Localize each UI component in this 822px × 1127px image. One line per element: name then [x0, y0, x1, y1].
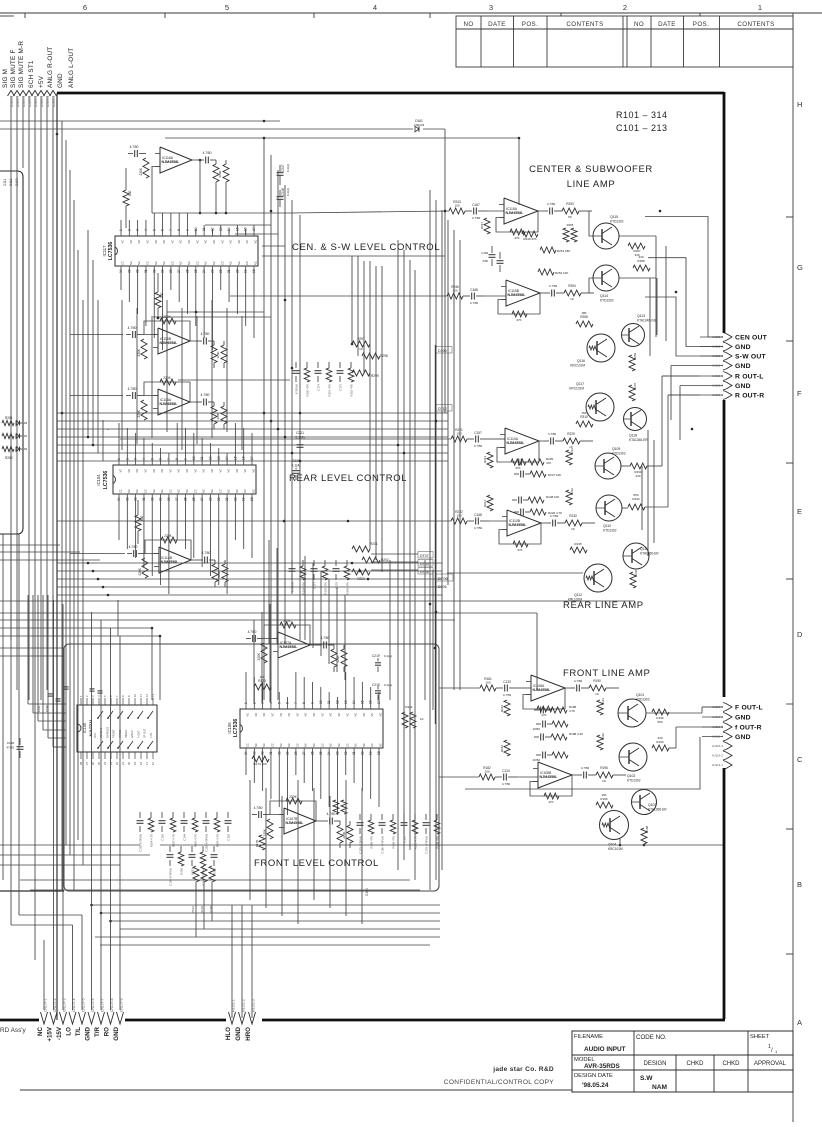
svg-text:100: 100 [456, 514, 461, 518]
capacitor 10/50 + resistor R187 [542, 721, 544, 728]
wire feedback loop IC110B [499, 523, 541, 544]
svg-text:NC: NC [287, 713, 291, 717]
capacitor input IC107B [258, 811, 260, 818]
capacitor output IC115A [549, 208, 551, 215]
svg-text:10: 10 [133, 693, 137, 697]
resistor R190 [589, 685, 606, 691]
op-amp IC116A [160, 147, 192, 173]
svg-text:S-W OUT: S-W OUT [735, 353, 766, 360]
resistor R178 220K vertical [259, 835, 265, 850]
svg-text:NC: NC [212, 240, 216, 244]
svg-text:F-IN: F-IN [150, 733, 153, 738]
svg-text:26: 26 [184, 497, 188, 501]
svg-text:47K: 47K [514, 236, 519, 240]
svg-text:R188 3.3K: R188 3.3K [569, 732, 583, 736]
op-amp IC107B [284, 808, 316, 834]
resistor R173 100 [254, 684, 271, 690]
svg-text:DT06: DT06 [438, 576, 449, 581]
svg-text:RO: RO [104, 1027, 111, 1036]
resistor R257 330 [628, 243, 645, 249]
svg-text:2: 2 [252, 702, 256, 704]
resistor R202 1K [362, 557, 380, 563]
svg-text:C217: C217 [281, 164, 285, 172]
svg-text:CC: CC [143, 489, 147, 493]
svg-text:23: 23 [109, 761, 113, 765]
svg-text:C182 470P(A): C182 470P(A) [205, 834, 209, 852]
wire feedback loop IC110A [497, 441, 539, 462]
svg-text:CONFIDENTIAL/CONTROL COPY: CONFIDENTIAL/CONTROL COPY [444, 1079, 555, 1086]
svg-text:Q109: Q109 [612, 447, 620, 451]
svg-text:5: 5 [277, 702, 281, 704]
svg-text:R196: R196 [600, 766, 608, 770]
resistor R232 220K vertical [566, 490, 572, 505]
svg-text:C167: C167 [472, 203, 480, 207]
svg-text:GND: GND [735, 714, 751, 721]
svg-text:R190: R190 [593, 679, 601, 683]
svg-text:KTD1302: KTD1302 [612, 452, 626, 456]
svg-text:R231: R231 [570, 448, 574, 455]
wire verticals Q118 to rear amp [647, 430, 649, 556]
capacitor output IC107A [323, 642, 325, 649]
svg-text:R281: R281 [405, 705, 413, 709]
svg-text:R194: R194 [656, 740, 664, 744]
svg-text:4.7/50: 4.7/50 [128, 387, 137, 391]
resistor R233 330 [630, 463, 647, 469]
svg-text:NC: NC [337, 713, 341, 717]
svg-text:19: 19 [369, 751, 373, 755]
svg-text:34: 34 [119, 269, 123, 273]
capacitor output IC108A [576, 685, 578, 692]
wire verticals between IC117 and IC104 [121, 300, 123, 450]
svg-text:C183: C183 [161, 834, 165, 841]
svg-text:GND: GND [735, 344, 751, 351]
svg-text:100: 100 [128, 190, 132, 196]
capacitor output IC116B [203, 338, 205, 345]
svg-text:C183: C183 [227, 834, 231, 841]
capacitor output IC115B [551, 290, 553, 297]
svg-text:CC: CC [245, 261, 249, 265]
main schematic frame right edge middle [723, 400, 726, 697]
svg-text:NO: NO [634, 21, 644, 28]
svg-text:4.7K: 4.7K [569, 709, 575, 713]
resistor bias IC107B [267, 819, 273, 839]
svg-text:VC: VC [195, 240, 199, 244]
svg-text:R101 – 314: R101 – 314 [616, 110, 668, 120]
svg-text:4.7/50: 4.7/50 [254, 806, 263, 810]
svg-text:CHKD: CHKD [722, 1061, 740, 1067]
svg-text:NC: NC [262, 713, 266, 717]
svg-text:GND: GND [85, 1026, 92, 1040]
svg-text:4: 4 [144, 229, 148, 231]
capacitor/resistor cluster part at 404 [403, 814, 405, 820]
wires front amp outputs [646, 712, 702, 714]
wires Q114 output [589, 278, 593, 293]
svg-text:KTD1302: KTD1302 [603, 529, 617, 533]
svg-text:NC: NC [354, 743, 358, 747]
capacitor input IC113A [132, 392, 134, 399]
right border ticks [786, 216, 793, 218]
svg-text:NC: NC [362, 743, 366, 747]
capacitor/resistor cluster part at 140 [139, 812, 141, 818]
resistor bias IC107A [261, 643, 267, 663]
svg-text:NC: NC [179, 240, 183, 244]
wire y213 feedback bus [152, 212, 292, 214]
resistor R235 1K [570, 547, 587, 553]
svg-text:C218: C218 [372, 683, 380, 687]
wire feedback loop IC108B [530, 775, 572, 796]
IC U105 NJU7311 box [77, 705, 157, 752]
svg-text:220K: 220K [342, 831, 346, 838]
svg-text:IC117: IC117 [102, 245, 107, 257]
svg-text:1: 1 [244, 702, 248, 704]
svg-text:27: 27 [177, 269, 181, 273]
wire top horizontal y138 to op-amp supply [165, 138, 519, 205]
transistor Q111 KTA1266-ER [623, 543, 649, 569]
capacitor output IC107B [329, 818, 331, 825]
wire feedback loop IC115A [496, 211, 538, 232]
capacitor/resistor cluster part at 360 [359, 814, 361, 820]
svg-text:20: 20 [127, 761, 131, 765]
svg-text:KTD1302: KTD1302 [627, 779, 641, 783]
svg-text:R301 47K: R301 47K [328, 384, 332, 397]
svg-text:11: 11 [139, 694, 143, 697]
svg-text:T/R: T/R [94, 1026, 101, 1036]
svg-text:6: 6 [286, 702, 290, 704]
resistor R223 220K vertical [487, 452, 493, 468]
svg-text:AVR-35RDS: AVR-35RDS [584, 1063, 620, 1070]
transistor Q112 KRL102M [584, 564, 612, 592]
wire feedback loop IC114B [145, 540, 191, 560]
capacitor/resistor cluster part at 347 [346, 560, 348, 566]
capacitor C168 [471, 293, 473, 300]
svg-text:GND: GND [57, 73, 64, 88]
svg-text:GND: GND [735, 383, 751, 390]
resistor R182 [479, 774, 495, 780]
resistor R261 1K [2, 420, 14, 425]
svg-text:NC: NC [177, 489, 181, 493]
svg-text:E: E [797, 507, 802, 516]
op-amp IC110B [507, 510, 541, 536]
svg-text:F-OUT: F-OUT [137, 730, 140, 738]
wire feedback loop IC116B [144, 321, 190, 341]
svg-text:R284 4.7K: R284 4.7K [150, 834, 154, 847]
svg-text:CC: CC [168, 489, 172, 493]
svg-text:SHEET: SHEET [750, 1034, 770, 1040]
svg-text:VC: VC [246, 713, 250, 717]
svg-text:23: 23 [335, 751, 339, 755]
svg-text:SIG MUTE F: SIG MUTE F [10, 49, 17, 88]
svg-text:CC: CC [320, 743, 324, 747]
svg-text:C101 – 213: C101 – 213 [616, 123, 668, 133]
svg-text:NJM4558L: NJM4558L [533, 688, 552, 692]
svg-text:18: 18 [250, 497, 254, 501]
svg-text:4.7/50: 4.7/50 [201, 393, 210, 397]
svg-text:R232: R232 [570, 488, 574, 495]
capacitor C133 [504, 685, 506, 692]
svg-text:47K: 47K [517, 548, 522, 552]
svg-text:22: 22 [344, 751, 348, 755]
svg-text:DESIGN: DESIGN [643, 1061, 666, 1067]
svg-text:18: 18 [139, 761, 143, 765]
svg-text:NJM4558L: NJM4558L [509, 523, 528, 527]
capacitor/resistor cluster part at 393 [392, 814, 394, 820]
svg-text:9: 9 [186, 229, 190, 231]
svg-text:GND: GND [735, 363, 751, 370]
svg-text:32: 32 [136, 269, 140, 273]
svg-text:CC: CC [246, 743, 250, 747]
diode D101 [16, 434, 20, 439]
svg-text:R249 47K: R249 47K [523, 237, 536, 241]
svg-text:Q102: Q102 [627, 774, 635, 778]
svg-text:C178: C178 [335, 582, 339, 589]
capacitor input IC116B [132, 331, 134, 338]
sheet bottom line [20, 1089, 572, 1091]
wire feedback loop IC116A [199, 160, 201, 213]
svg-text:R227 10K: R227 10K [548, 473, 561, 477]
svg-text:VC: VC [220, 240, 224, 244]
svg-text:2: 2 [623, 3, 627, 12]
wire connects to output chevrons group1 [671, 365, 700, 367]
svg-text:POS.: POS. [693, 21, 709, 28]
svg-text:3: 3 [489, 3, 493, 12]
sheet top ruler line [0, 12, 822, 14]
wire input to IC115A [487, 210, 504, 212]
transistor Q113 KTA1246-GS [622, 324, 645, 347]
IC U104 LC7536 box [113, 465, 256, 494]
wires IC104 bottom pins [118, 501, 120, 540]
svg-text:RD Ass'y: RD Ass'y [0, 1027, 27, 1034]
capacitor C167 [473, 208, 475, 215]
capacitor/resistor cluster part at 415 [414, 814, 416, 820]
svg-text:CC: CC [345, 743, 349, 747]
svg-text:21: 21 [352, 751, 356, 755]
op-amp IC113A [158, 389, 190, 415]
svg-text:IC104: IC104 [96, 474, 101, 486]
IC105 pins top [80, 698, 82, 705]
svg-text:22: 22 [217, 497, 221, 501]
svg-text:6CH ST1: 6CH ST1 [28, 60, 35, 88]
svg-text:R224: R224 [483, 500, 487, 508]
wires IC117 top pins [120, 220, 122, 229]
svg-text:470P(A): 470P(A) [295, 384, 299, 394]
svg-text:A/REC: A/REC [131, 730, 134, 738]
svg-text:100: 100 [456, 432, 461, 436]
transistor Q109 KTD1302 [595, 453, 621, 479]
resistor R174 100 [252, 756, 269, 762]
svg-text:R207: R207 [633, 382, 637, 390]
svg-text:Q110: Q110 [603, 524, 611, 528]
svg-text:2: 2 [127, 229, 131, 231]
svg-text:R195: R195 [600, 797, 608, 801]
svg-text:4.7/50: 4.7/50 [472, 216, 481, 220]
svg-text:4.7/50: 4.7/50 [321, 636, 330, 640]
resistor R196 [596, 772, 613, 778]
svg-text:'98.05.24: '98.05.24 [582, 1082, 609, 1089]
op-amp IC108B [538, 762, 572, 788]
svg-text:CC: CC [145, 261, 149, 265]
svg-text:NJM4558L: NJM4558L [160, 402, 179, 406]
svg-text:NC: NC [135, 489, 139, 493]
svg-text:5K: 5K [568, 215, 572, 219]
op-amp IC110A [505, 428, 539, 454]
resistor R251 18K [540, 247, 556, 253]
svg-text:R201: R201 [370, 542, 378, 546]
svg-text:100: 100 [452, 289, 457, 293]
svg-text:15K: 15K [601, 793, 606, 797]
svg-text:25: 25 [319, 751, 323, 755]
IC105 internal switches top row [98, 711, 103, 718]
wire GND stubs group1 [670, 366, 672, 421]
resistor R214 100 [135, 515, 141, 531]
resistor R243 [449, 208, 465, 214]
svg-text:47K: 47K [546, 461, 551, 465]
svg-text:R OUT-L: R OUT-L [735, 373, 764, 380]
svg-text:4.7/50: 4.7/50 [574, 679, 583, 683]
svg-text:VC: VC [168, 469, 172, 473]
svg-text:4.7/50: 4.7/50 [547, 202, 556, 206]
resistor R236 22R vertical [630, 572, 636, 588]
resistor R193 550 [652, 709, 669, 715]
svg-text:POS.: POS. [522, 21, 538, 28]
svg-text:6: 6 [83, 3, 87, 12]
svg-text:R262: R262 [5, 456, 13, 460]
svg-text:NJM4558L: NJM4558L [160, 341, 179, 345]
capacitor C-10/50 + resistor R227 10K [520, 471, 522, 478]
capacitor/resistor cluster part at 214 [213, 846, 215, 852]
svg-text:330: 330 [635, 474, 640, 478]
svg-text:4.7/50: 4.7/50 [201, 332, 210, 336]
wire top horizontal y121 [0, 120, 280, 122]
svg-text:33: 33 [127, 269, 131, 273]
svg-text:0.1(A): 0.1(A) [286, 164, 290, 172]
capacitor output IC114B [204, 557, 206, 564]
capacitor C160 + resistor R228 10K [518, 497, 520, 504]
svg-text:R302 47K: R302 47K [350, 384, 354, 397]
svg-text:NC: NC [37, 1026, 44, 1035]
capacitor/resistor cluster part at 228 [227, 812, 229, 818]
wires into IC105 left pins [28, 703, 66, 705]
svg-text:6: 6 [161, 229, 165, 231]
svg-text:R183: R183 [500, 705, 504, 713]
capacitor/resistor cluster part at 325 [324, 560, 326, 566]
transistor Q118 KTA1266-ER [624, 408, 647, 431]
svg-text:GND: GND [235, 1026, 242, 1040]
transistor Q110 KTD1302 [596, 495, 622, 521]
svg-text:4.7/50: 4.7/50 [550, 514, 559, 518]
svg-text:VC: VC [370, 713, 374, 717]
wire elbow R257 down [665, 246, 667, 341]
top ruler ticks [24, 13, 26, 18]
diode D102 [16, 447, 20, 452]
connector HJ116 front outputs [726, 704, 732, 711]
resistor R249 47K [522, 231, 538, 237]
resistor bias IC116A [143, 158, 149, 178]
capacitor/resistor cluster part at 173 [172, 812, 174, 818]
svg-text:27: 27 [85, 761, 89, 765]
svg-text:220K: 220K [139, 167, 143, 175]
svg-text:NC: NC [304, 743, 308, 747]
svg-text:NC: NC [254, 240, 258, 244]
capacitor/resistor cluster part at 382 [381, 814, 383, 820]
svg-text:CC: CC [370, 743, 374, 747]
capacitor C134 + resistor R188 3.3K [540, 734, 542, 741]
wire horizontal bundle y410-460 [57, 412, 448, 414]
resistor R184 220K vertical [504, 740, 510, 756]
svg-text:1K: 1K [602, 779, 606, 783]
svg-text:C157: C157 [474, 431, 482, 435]
svg-text:1S5133: 1S5133 [414, 123, 425, 127]
resistor R221 [451, 436, 467, 442]
wire feedback loop IC115B [498, 293, 540, 314]
IC U117 LC7536 box [115, 236, 258, 266]
IC105 pins bottom [80, 752, 82, 759]
wire left margin verticals below cut box [2, 534, 4, 880]
svg-text:GND: GND [113, 1026, 120, 1040]
sheet right border line [792, 13, 794, 1122]
svg-text:C174: C174 [317, 384, 321, 391]
svg-text:C181: C181 [403, 836, 407, 843]
svg-text:GND: GND [735, 734, 751, 741]
svg-text:NC: NC [152, 469, 156, 473]
capacitor output IC116A [205, 157, 207, 164]
wire bundle from top-left connectors [10, 96, 12, 640]
svg-text:NC: NC [237, 261, 241, 265]
capacitor/resistor cluster part at 336 [335, 560, 337, 566]
wire vertical x445 from D161 [444, 129, 446, 413]
op-amp IC107A [278, 632, 310, 658]
capacitor/resistor cluster part at 195 [194, 812, 196, 818]
resistor bias IC113A [141, 400, 147, 420]
svg-text:NC: NC [154, 240, 158, 244]
svg-text:CEN OUT: CEN OUT [735, 334, 768, 341]
svg-text:R310: R310 [580, 415, 588, 419]
wire bottom horizontals lower-left [0, 844, 140, 846]
resistor R260 12K vertical [629, 385, 635, 401]
connector HJ101 bottom chevrons [229, 1012, 236, 1024]
svg-text:550: 550 [657, 720, 662, 724]
svg-text:D: D [797, 630, 803, 639]
svg-text:NC: NC [160, 469, 164, 473]
svg-text:ANLG L-OUT: ANLG L-OUT [68, 48, 75, 88]
wire bold vertical x436 [435, 345, 437, 724]
resistor feedback IC107B [286, 798, 302, 804]
svg-text:30: 30 [277, 751, 281, 755]
svg-text:220K: 220K [216, 351, 220, 358]
capacitor/resistor cluster part at 192 [191, 846, 193, 852]
svg-text:R306 47K: R306 47K [346, 582, 350, 595]
wire bus between IC117 and right section [205, 224, 271, 226]
svg-text:R300 47K: R300 47K [306, 384, 310, 397]
svg-text:NC: NC [179, 261, 183, 265]
svg-text:4.7/50: 4.7/50 [549, 284, 558, 288]
wire bottom-left vertical drops below IC106 [249, 780, 251, 900]
svg-text:R191: R191 [601, 698, 605, 705]
svg-text:P102: P102 [191, 906, 195, 913]
wires output resistors to bus IC116A [215, 187, 217, 213]
svg-text:20: 20 [233, 497, 237, 501]
transistor Q115 KTD1302 [593, 223, 619, 249]
svg-text:R234: R234 [632, 497, 640, 501]
svg-text:D102: D102 [20, 447, 28, 451]
wire feedback loop IC108A [523, 688, 565, 709]
diode D103 [16, 421, 20, 426]
svg-text:4.7/50: 4.7/50 [470, 301, 479, 305]
svg-text:330: 330 [657, 736, 662, 740]
capacitor/resistor cluster part at 296 [295, 362, 297, 368]
svg-text:5: 5 [225, 3, 229, 12]
resistor R254 [564, 290, 581, 296]
svg-text:4: 4 [269, 702, 273, 704]
